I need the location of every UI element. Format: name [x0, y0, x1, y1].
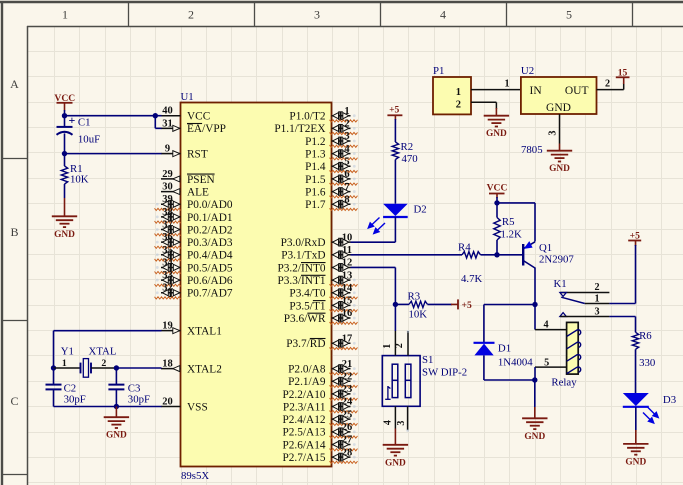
- svg-text:U2: U2: [521, 65, 534, 77]
- wire R2 to D2: [394, 160, 396, 204]
- U1 pin 19 XTAL1: [161, 321, 222, 338]
- U1 pin 23 P2.2/A10: [283, 384, 358, 401]
- U1 pin 36 P0.3/AD3: [155, 232, 233, 249]
- svg-text:1: 1: [504, 79, 509, 90]
- svg-text:XTAL: XTAL: [89, 346, 117, 358]
- svg-text:GND: GND: [625, 457, 646, 467]
- junction node crystal right: [114, 365, 119, 370]
- svg-text:10K: 10K: [409, 309, 428, 321]
- svg-text:10K: 10K: [70, 174, 89, 186]
- crystal Y1 XTAL: [54, 346, 117, 378]
- svg-text:4: 4: [543, 320, 548, 331]
- svg-text:K1: K1: [554, 278, 567, 290]
- svg-text:D3: D3: [663, 394, 676, 406]
- relay coil: [551, 322, 580, 388]
- svg-text:IN: IN: [530, 85, 543, 97]
- wire riser to U1 pin 31: [155, 116, 161, 129]
- wire +5 to R2: [394, 119, 396, 142]
- svg-text:P2.7/A15: P2.7/A15: [283, 452, 326, 464]
- ground under S1: [383, 429, 408, 469]
- svg-text:40: 40: [162, 106, 173, 117]
- svg-text:+5: +5: [462, 300, 472, 311]
- U1 pin 13 P3.3/INT1: [277, 270, 357, 287]
- svg-text:EA/VPP: EA/VPP: [187, 123, 226, 135]
- svg-text:4.7K: 4.7K: [461, 273, 482, 285]
- U1 pin 28 P2.7/A15: [283, 447, 358, 464]
- svg-text:P3.5/T1: P3.5/T1: [289, 300, 325, 312]
- svg-text:D2: D2: [414, 204, 427, 216]
- svg-text:1: 1: [382, 344, 393, 349]
- svg-text:2: 2: [101, 358, 106, 369]
- led D2: [368, 204, 426, 234]
- svg-text:VCC: VCC: [187, 111, 210, 123]
- ground at P1: [484, 116, 509, 140]
- svg-text:P3.4/T0: P3.4/T0: [289, 288, 325, 300]
- svg-text:C1: C1: [78, 117, 91, 129]
- wire to U1 pin 18 XTAL2: [116, 367, 161, 369]
- U1 pin 26 P2.5/A13: [283, 422, 358, 439]
- U1 pin 1 P1.0/T2: [289, 106, 357, 123]
- svg-text:P1.4: P1.4: [305, 161, 326, 173]
- svg-text:7805: 7805: [521, 144, 543, 156]
- U1 pin 12 P3.2/INT0: [277, 258, 352, 275]
- svg-text:1.2K: 1.2K: [501, 229, 522, 241]
- svg-text:XTAL1: XTAL1: [187, 326, 222, 338]
- svg-text:OUT: OUT: [565, 85, 589, 97]
- resistor R2 470: [392, 141, 418, 165]
- svg-text:P0.3/AD3: P0.3/AD3: [187, 237, 233, 249]
- svg-text:3: 3: [547, 131, 558, 136]
- svg-text:Relay: Relay: [551, 376, 577, 388]
- svg-text:+5: +5: [389, 105, 399, 116]
- U1 pin 39 P0.0/AD0: [155, 194, 233, 211]
- U1 pin 16 P3.6/WR: [284, 308, 358, 325]
- wire U1 pin 11 TxD to R4: [351, 254, 463, 256]
- svg-text:4: 4: [440, 8, 446, 22]
- capacitor C2 30pF: [46, 368, 86, 407]
- svg-text:P0.6/AD6: P0.6/AD6: [187, 275, 233, 287]
- svg-text:5: 5: [544, 357, 549, 368]
- ground under R1: [52, 216, 77, 240]
- U1 pin 24 P2.3/A11: [283, 397, 358, 414]
- wire D2 to U1 pin 10 RxD: [351, 217, 396, 242]
- svg-text:29: 29: [162, 169, 173, 180]
- svg-text:P3.3/INT1: P3.3/INT1: [277, 275, 325, 287]
- U1 pin 40 VCC: [161, 106, 210, 123]
- power port +5 at R3: [458, 299, 472, 311]
- svg-text:P1.3: P1.3: [305, 149, 326, 161]
- svg-text:VSS: VSS: [187, 401, 208, 413]
- svg-text:2N2907: 2N2907: [539, 253, 574, 265]
- diode D1 1N4004: [474, 343, 534, 369]
- svg-text:R4: R4: [458, 242, 471, 254]
- resistor R4 4.7K: [458, 242, 482, 285]
- svg-text:P0.1/AD1: P0.1/AD1: [187, 212, 233, 224]
- junction node Q1 base: [494, 252, 499, 257]
- svg-text:2: 2: [605, 79, 610, 90]
- svg-text:P3.7/RD: P3.7/RD: [286, 338, 325, 350]
- U1 pin 14 P3.4/T0: [289, 283, 357, 300]
- junction node crystal left: [51, 365, 56, 370]
- wire D1 anode to gnd node: [484, 355, 535, 380]
- wire node to U1 pin 40: [65, 115, 162, 117]
- svg-text:A: A: [10, 77, 19, 91]
- power port +5 at K1: [628, 231, 641, 246]
- ground under relay: [522, 380, 547, 442]
- svg-text:GND: GND: [486, 129, 507, 139]
- wire node to S1 pin 1: [394, 304, 396, 331]
- wire +5 down to K1 pin 1: [609, 245, 635, 304]
- svg-text:30pF: 30pF: [128, 394, 150, 406]
- svg-text:4: 4: [382, 420, 393, 425]
- U1 pin 31 EA/VPP: [161, 118, 226, 135]
- svg-text:1N4004: 1N4004: [498, 357, 533, 369]
- svg-text:P1.1/T2EX: P1.1/T2EX: [274, 123, 325, 135]
- svg-text:18: 18: [162, 359, 173, 370]
- svg-text:GND: GND: [385, 458, 406, 468]
- svg-text:30pF: 30pF: [64, 394, 86, 406]
- U1 pin 7 P1.6: [305, 182, 357, 199]
- U1 pin 3 P1.2: [305, 131, 357, 148]
- svg-text:P0.5/AD5: P0.5/AD5: [187, 262, 233, 274]
- svg-text:PSEN: PSEN: [187, 174, 215, 186]
- junction node D1/relay gnd: [532, 377, 537, 382]
- ic U1 89s5X body: [181, 91, 332, 482]
- resistor R3 10K: [395, 290, 458, 320]
- svg-text:+: +: [68, 113, 75, 127]
- svg-text:P0.2/AD2: P0.2/AD2: [187, 224, 233, 236]
- wire node to relay pin 4: [535, 305, 567, 331]
- svg-text:GND: GND: [524, 432, 545, 442]
- svg-text:R6: R6: [639, 330, 652, 342]
- svg-text:GND: GND: [546, 102, 571, 114]
- svg-text:P0.4/AD4: P0.4/AD4: [187, 250, 233, 262]
- wire K1 pin 3 to R6: [609, 317, 635, 333]
- svg-text:P1.5: P1.5: [305, 174, 326, 186]
- svg-text:P2.6/A14: P2.6/A14: [283, 439, 326, 451]
- svg-text:R5: R5: [502, 216, 515, 228]
- U1 pin 37 P0.2/AD2: [155, 220, 233, 237]
- svg-text:R3: R3: [408, 290, 421, 302]
- junction node at RST wire: [62, 151, 67, 156]
- U1 pin 15 P3.5/T1: [289, 296, 357, 313]
- U1 pin 20 VSS: [161, 397, 208, 414]
- U1 pin 9 RST: [161, 144, 208, 161]
- svg-text:P2.2/A10: P2.2/A10: [283, 389, 326, 401]
- svg-text:2: 2: [394, 343, 405, 348]
- svg-text:P3.0/RxD: P3.0/RxD: [281, 237, 326, 249]
- wire VCC to node: [496, 197, 498, 203]
- svg-text:30: 30: [162, 182, 173, 193]
- U1 pin 29 PSEN: [161, 169, 215, 186]
- svg-text:5: 5: [566, 8, 572, 22]
- connector P1: [433, 65, 471, 114]
- svg-text:P1: P1: [433, 65, 444, 77]
- svg-text:P1.0/T2: P1.0/T2: [289, 111, 325, 123]
- svg-text:D1: D1: [498, 343, 511, 355]
- wire R4 to Q1 base node: [481, 254, 498, 256]
- svg-text:3: 3: [396, 421, 407, 426]
- svg-text:P3.2/INT0: P3.2/INT0: [277, 262, 325, 274]
- svg-text:1: 1: [456, 87, 461, 98]
- wire VSS net: [54, 406, 162, 408]
- svg-text:2: 2: [456, 99, 461, 110]
- switch S1 SW DIP-2: [382, 330, 467, 432]
- led D3: [623, 393, 676, 423]
- svg-text:2: 2: [594, 282, 599, 293]
- wire node to Q1 emitter: [497, 203, 535, 242]
- ground under C3: [104, 407, 129, 441]
- junction node pin31 riser: [153, 113, 158, 118]
- wire Q1 collector down: [534, 268, 536, 305]
- wire U2 OUT to power 15: [597, 77, 624, 89]
- U1 pin 27 P2.6/A14: [283, 435, 358, 452]
- U1 pin 2 P1.1/T2EX: [274, 119, 357, 136]
- svg-text:GND: GND: [54, 230, 75, 240]
- resistor R1 10K: [61, 154, 88, 217]
- U1 pin 35 P0.4/AD4: [155, 245, 233, 262]
- svg-text:31: 31: [162, 118, 173, 129]
- wire P1 pin2 to ground: [471, 102, 496, 115]
- svg-text:RST: RST: [187, 149, 208, 161]
- svg-text:P1.6: P1.6: [305, 186, 326, 198]
- svg-text:XTAL2: XTAL2: [187, 364, 222, 376]
- svg-text:3: 3: [314, 8, 320, 22]
- U1 pin 32 P0.7/AD7: [155, 283, 233, 300]
- svg-text:SW DIP-2: SW DIP-2: [422, 367, 467, 379]
- relay contacts K1: [554, 278, 610, 317]
- svg-text:1: 1: [594, 293, 599, 304]
- U1 pin 38 P0.1/AD1: [155, 207, 233, 224]
- svg-text:P0.0/AD0: P0.0/AD0: [187, 199, 233, 211]
- regulator U2 7805: [504, 65, 610, 156]
- svg-text:S1: S1: [422, 354, 433, 366]
- svg-text:ALE: ALE: [187, 186, 209, 198]
- svg-text:470: 470: [402, 153, 418, 165]
- svg-text:Y1: Y1: [61, 346, 74, 358]
- svg-text:15: 15: [618, 67, 628, 78]
- wire node to U1 pin 9 RST: [65, 153, 162, 155]
- svg-text:GND: GND: [106, 431, 127, 441]
- U1 pin 5 P1.4: [305, 156, 357, 173]
- wire XTAL1 net: [54, 331, 162, 368]
- power port +5 above R2: [387, 105, 402, 121]
- ground under U2: [547, 144, 572, 175]
- svg-text:3: 3: [594, 306, 599, 317]
- svg-text:R2: R2: [401, 141, 414, 153]
- svg-text:330: 330: [639, 357, 655, 369]
- capacitor C3 30pF: [108, 368, 150, 407]
- svg-text:89s5X: 89s5X: [181, 470, 209, 482]
- U1 pin 25 P2.4/A12: [283, 409, 358, 426]
- junction node R3/S1: [393, 302, 398, 307]
- resistor R6 330: [632, 330, 655, 369]
- power port 15: [616, 67, 630, 78]
- svg-text:20: 20: [162, 397, 173, 408]
- junction node at C1 top: [62, 113, 67, 118]
- svg-text:P2.4/A12: P2.4/A12: [283, 414, 326, 426]
- capacitor C1 10uF: [57, 113, 101, 154]
- svg-text:P0.7/AD7: P0.7/AD7: [187, 288, 233, 300]
- U1 pin 17 P3.7/RD: [286, 334, 357, 351]
- wire relay pin 5 to gnd node: [535, 357, 567, 380]
- svg-text:P1.7: P1.7: [305, 199, 326, 211]
- svg-text:U1: U1: [181, 91, 194, 103]
- U1 pin 33 P0.6/AD6: [155, 270, 233, 287]
- U1 pin 34 P0.5/AD5: [155, 257, 233, 274]
- wire VCC stem to node: [64, 110, 66, 116]
- transistor Q1 2N2907: [497, 241, 574, 268]
- svg-text:P3.6/WR: P3.6/WR: [284, 313, 326, 325]
- svg-text:9: 9: [165, 144, 170, 155]
- wire node to D1 cathode: [484, 305, 535, 343]
- svg-text:P2.5/A13: P2.5/A13: [283, 427, 326, 439]
- ground under D3: [623, 407, 648, 467]
- svg-text:GND: GND: [549, 164, 570, 174]
- svg-text:1: 1: [62, 358, 67, 369]
- svg-text:P2.3/A11: P2.3/A11: [283, 401, 326, 413]
- svg-text:B: B: [10, 225, 18, 239]
- svg-text:2: 2: [188, 8, 194, 22]
- svg-text:P2.0/A8: P2.0/A8: [288, 364, 326, 376]
- junction node collector/D1/coil: [532, 302, 537, 307]
- wire P1 pin1 to U2 IN: [471, 89, 521, 91]
- power port VCC (top-left): [54, 93, 75, 111]
- svg-text:P2.1/A9: P2.1/A9: [288, 376, 326, 388]
- wire R6 to D3: [635, 349, 637, 393]
- svg-text:Q1: Q1: [539, 242, 552, 254]
- wire U1 pin 12 INT0 to R3 node: [351, 267, 396, 304]
- U1 pin 21 P2.0/A8: [288, 359, 357, 376]
- power port VCC at Q1: [487, 183, 508, 198]
- resistor R5 1.2K: [494, 203, 522, 255]
- svg-text:10uF: 10uF: [78, 133, 100, 145]
- U1 pin 30 ALE: [161, 182, 209, 199]
- U2 pin 3 stub: [547, 114, 559, 144]
- U1 pin 10 P3.0/RxD: [281, 232, 353, 249]
- U1 pin 8 P1.7: [305, 194, 357, 211]
- U1 pin 11 P3.1/TxD: [281, 245, 352, 262]
- U1 pin 22 P2.1/A9: [288, 371, 357, 388]
- U1 pin 4 P1.3: [305, 144, 357, 161]
- svg-text:VCC: VCC: [487, 183, 508, 194]
- svg-text:19: 19: [162, 321, 173, 332]
- U1 pin 18 XTAL2: [161, 359, 222, 376]
- U1 pin 6 P1.5: [305, 169, 357, 186]
- junction node VCC/R5/emitter: [494, 200, 499, 205]
- junction node VSS/GND: [114, 404, 119, 409]
- svg-text:P1.2: P1.2: [305, 136, 326, 148]
- svg-text:C: C: [10, 394, 18, 408]
- svg-text:P3.1/TxD: P3.1/TxD: [281, 250, 325, 262]
- svg-text:1: 1: [62, 8, 68, 22]
